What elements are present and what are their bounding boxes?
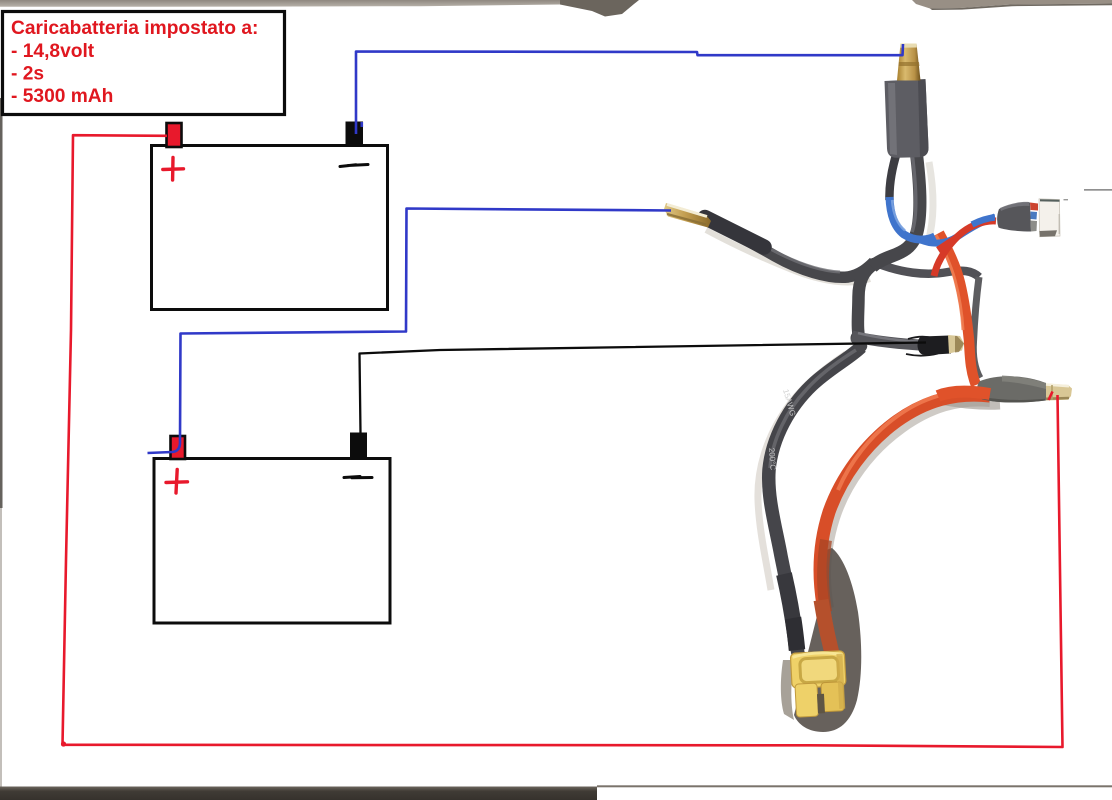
thin signal wire over bullet cable [906,337,938,356]
JST wire window red [1030,203,1038,211]
JST top dark band [1040,199,1060,202]
left bullet gold tip [664,203,711,228]
red wire: B1 plus to left rail, bottom rail, up to gold connector [63,135,1063,747]
battery B2 plus terminal [171,436,186,459]
XT60 shadow left edge [781,660,794,720]
battery B1 plus sign [163,158,184,181]
bullet cable top highlight [858,333,926,342]
banana sleeve dark right [918,80,929,158]
banana plug gold pin [897,44,921,81]
black shrink darker band [793,618,797,650]
XT60 upper block [790,651,846,689]
svg-text:Caricabatteria impostato a:: Caricabatteria impostato a: [11,18,258,39]
XT60 right side shading [836,654,845,709]
blue wire: bullet connector to B2 plus (series link) [148,209,672,454]
soft shadow right of loop [928,162,933,242]
twist crossing blue over red [972,218,995,225]
red wire stub at gold connector [1049,392,1053,401]
Y sleeve shading [1002,376,1046,390]
loop blue wire [890,197,936,240]
right gold mid line [1051,385,1053,400]
twist crossing red over blue mid [938,238,956,250]
XT60 left tab [795,683,819,717]
left bullet black sleeve [705,218,764,248]
orange heat shrink above XT60 [821,600,834,661]
top photo edge wedge center [560,0,639,17]
black cable highlight [770,350,856,468]
top photo edge band right lower line [930,4,1112,11]
blue wire: B1 minus up and right to banana plug [356,44,903,134]
battery B2 plus sign [166,470,188,494]
table edge line right [1084,189,1112,191]
XT60 top-left highlight [792,652,842,658]
XT60 notch [817,694,825,714]
right gold bottom shade [1046,397,1069,400]
black bullet gold tip [948,335,964,354]
battery B2 minus sign [344,477,372,478]
battery B2 body [154,459,390,624]
orange arc dark lower part [823,540,826,612]
twisted pair: red wire to JST [934,221,996,276]
banana plug gray sleeve [885,79,929,158]
soft shadow below orange arc [826,401,990,608]
small gray dash right of JST [1064,199,1069,200]
banana plug loop: thick right strand [872,150,920,267]
bottom photo edge band [0,787,597,800]
banana sleeve left highlight [888,83,897,155]
JST right edge shade [1059,214,1060,234]
banana pin top light cap [900,44,917,48]
gray strand descending to Y sleeve [973,277,980,378]
top photo edge band left [0,0,592,7]
battery B1 minus terminal [346,122,364,148]
soft shadow under orange Y [940,400,1000,405]
left bullet top highlight [667,205,707,217]
JST bottom shadow band [1040,230,1058,237]
JST dark sleeve [997,202,1031,231]
XT60 inner frame [800,657,839,683]
junction fill patch [851,331,866,346]
left photo edge line [0,98,3,508]
charger settings text box [3,12,285,115]
orange horizontal branch from Y going left [938,392,990,396]
junction cable from loop to lower left [858,264,874,346]
upper orange highlight [936,235,963,330]
black heat shrink above XT60 [784,574,797,650]
right gold bullet connector [1046,384,1072,401]
black bullet gold tip shade [955,336,964,353]
svg-text:- 5300 mAh: - 5300 mAh [11,86,113,107]
black wire: B2 minus up and right to black bullet connector [360,343,927,434]
black cable descending to XT60 [769,347,861,658]
black bullet connector cap [918,336,952,356]
JST wire window blue [1031,212,1038,220]
right gold top highlight [1046,385,1069,387]
soft shadow left of descending black cable [758,354,846,590]
red wire corner blob [61,741,66,746]
battery B1 plus terminal [167,123,182,147]
left bullet cable highlight [708,217,840,272]
left bullet connector cable [706,219,874,277]
XT60 shadow blob [794,548,861,732]
battery B2 minus terminal [350,433,367,460]
JST white connector body [1039,199,1060,237]
loop blue wire highlight [892,200,905,231]
svg-text:- 14,8volt: - 14,8volt [11,41,95,62]
upper orange cable [939,233,976,385]
loop right strand highlight [912,152,916,232]
left bullet lower shade [667,214,706,225]
blue notch on B1 minus terminal [361,122,364,127]
Y junction gray sleeve [977,376,1046,402]
soft shadow under left connector cable [706,230,870,282]
horizontal cable to black bullet connector [852,336,928,346]
bottom photo edge line right [597,785,1112,787]
top photo edge band right [912,0,1112,9]
orange arc cable to XT60 [820,395,990,662]
banana pin collar band [899,62,920,66]
horizontal cable from loop bottom to right [874,262,979,277]
svg-text:- 2s: - 2s [11,64,44,85]
orange arc highlight [838,391,985,490]
loop thin strand black upper [889,152,897,200]
JST wire window gray [1031,221,1038,232]
battery B1 minus sign [340,165,368,167]
battery B1 body [152,146,388,310]
svg-text:200°C: 200°C [767,448,778,471]
XT60 right tab [821,682,844,712]
XT60 connector body [790,651,847,718]
twisted pair: blue wire to JST [921,217,995,243]
JST sleeve top highlight [1000,202,1030,211]
